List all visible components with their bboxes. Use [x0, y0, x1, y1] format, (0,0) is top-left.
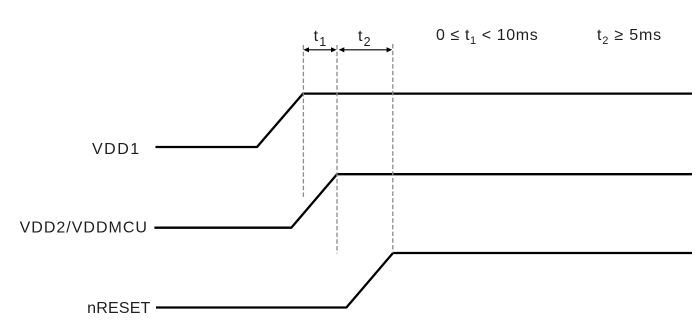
svg-text:t1: t1	[314, 28, 328, 49]
wire: VDD1 waveform (low, ramp, high)	[156, 94, 693, 147]
dimension arrow t2 (double headed)	[339, 47, 393, 52]
node marker: dashed line at nRESET rise complete (x=393)	[392, 44, 394, 253]
svg-text:nRESET: nRESET	[87, 300, 150, 317]
node marker: dashed line at VDD1 rise complete (x=303)	[302, 45, 304, 199]
svg-text:t2 ≥ 5ms: t2 ≥ 5ms	[597, 27, 662, 47]
svg-text:0 ≤ t1 < 10ms: 0 ≤ t1 < 10ms	[436, 27, 538, 47]
wire: VDD2/VDDMCU waveform (low, ramp, high)	[154, 174, 692, 228]
wire: nRESET waveform (low, ramp, high)	[156, 253, 692, 308]
node marker: dashed line at VDD2 rise complete (x=337)	[336, 45, 338, 254]
dimension arrow t1 (double headed)	[303, 47, 336, 52]
svg-text:t2: t2	[358, 28, 372, 49]
svg-text:VDD2/VDDMCU: VDD2/VDDMCU	[20, 220, 148, 237]
svg-text:VDD1: VDD1	[92, 141, 141, 158]
